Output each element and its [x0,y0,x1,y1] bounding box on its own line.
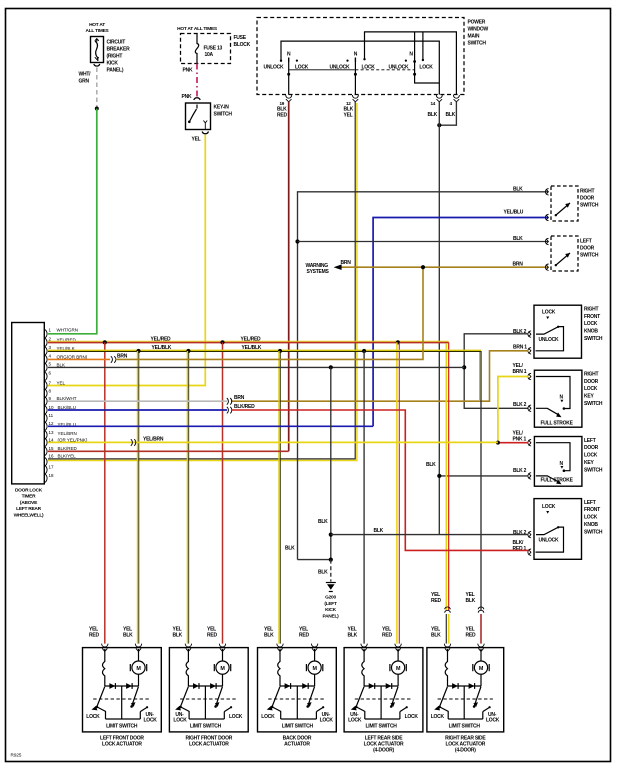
svg-text:WHT/GRN: WHT/GRN [57,327,79,332]
svg-text:13: 13 [49,430,55,435]
right door switch arm [556,203,570,215]
svg-text:SWITCH: SWITCH [214,112,233,118]
wire BLK to right door switch [298,192,549,560]
svg-text:LIMIT SWITCH: LIMIT SWITCH [449,724,481,730]
key-in switch U1 box [186,103,211,130]
wire YEL/RED branch to actuator 2 [222,342,224,643]
wire YEL from key-in switch to timer pin 7 [48,135,205,386]
svg-text:DOOR: DOOR [580,245,595,251]
wire row 3 YEL/BLK (yellow + black pair) [48,349,481,351]
svg-text:FULL STROKE: FULL STROKE [541,477,574,483]
svg-text:YEL/BRN: YEL/BRN [143,436,164,442]
svg-text:LOCK: LOCK [584,453,598,459]
svg-text:DOOR: DOOR [580,195,595,201]
wire YEL/BRN key pin1 riser [498,377,529,443]
svg-text:RED: RED [89,633,99,639]
wire BRN warning systems / left door switch pin 2 [341,266,548,268]
svg-text:LOCK: LOCK [542,310,556,316]
svg-text:KNOB: KNOB [584,329,598,335]
svg-text:GRN: GRN [79,79,90,85]
splice row 10 [227,407,232,414]
svg-text:BLK: BLK [318,570,328,576]
wire PNK dash-dot [196,64,198,100]
svg-text:WHT/: WHT/ [79,72,92,78]
junction dot pin14 net [437,474,441,478]
pin 1 connector [528,348,531,354]
junction dot row3 act2 [186,349,190,353]
wire row 12 YEL/BLU [48,425,373,427]
splice color change act5 left [445,607,451,613]
svg-text:LEFT FRONT DOOR: LEFT FRONT DOOR [100,735,144,741]
svg-text:12: 12 [346,101,351,106]
svg-text:YEL/BRN: YEL/BRN [58,431,77,436]
right door switch dashed box [551,186,578,221]
svg-text:YEL: YEL [173,626,182,632]
right door switch connectors [545,189,548,195]
wire YEL/RED branch to actuator 1 [104,342,106,643]
svg-text:BLK: BLK [431,633,441,639]
svg-text:RED: RED [431,598,441,604]
wire row 14 YEL/BRN [48,441,498,443]
pin 2 connector [528,473,531,479]
svg-text:18: 18 [49,473,55,478]
pin 1 connector [528,440,531,446]
svg-text:FUSE: FUSE [234,35,247,41]
svg-text:BLK: BLK [285,546,295,552]
svg-text:BLK/RED: BLK/RED [234,404,255,410]
svg-text:LEFT REAR SIDE: LEFT REAR SIDE [365,735,404,741]
svg-text:RIGHT: RIGHT [584,306,599,312]
key switch internal wire pin1 to N contact [536,377,570,409]
splice row 9 [227,398,232,405]
svg-text:LEFT REAR: LEFT REAR [16,506,41,512]
svg-text:11: 11 [49,413,54,418]
svg-text:LIMIT SWITCH: LIMIT SWITCH [366,724,398,730]
junction dot row2 act4 [396,340,400,344]
arrow to warning systems [334,264,342,270]
svg-text:LEFT: LEFT [584,438,596,444]
svg-text:YEL: YEL [207,626,216,632]
svg-text:YEL: YEL [466,592,475,598]
wire YEL/RED branch to actuator 4 (yellow+red pair) [396,342,398,643]
svg-text:(RIGHT: (RIGHT [107,54,123,60]
svg-text:(4-DOOR): (4-DOOR) [455,748,476,754]
svg-text:KEY: KEY [584,460,594,466]
svg-text:SWITCH: SWITCH [584,401,603,407]
svg-text:CIRCUIT: CIRCUIT [107,40,126,46]
svg-text:LOCK: LOCK [584,386,598,392]
junction dot row2 act2 [220,340,224,344]
svg-text:PANEL): PANEL) [107,68,124,74]
svg-text:SYSTEMS: SYSTEMS [307,269,330,275]
svg-text:MAIN: MAIN [468,34,480,40]
svg-text:BLK: BLK [513,186,523,192]
svg-text:BRN 1: BRN 1 [513,345,527,351]
svg-text:17: 17 [49,465,55,470]
svg-text:FRONT: FRONT [584,507,600,513]
wire BLK from pin 4 joining pin 14 [439,102,456,125]
svg-text:KICK: KICK [325,607,337,613]
wire BLK to left door switch [298,241,549,243]
svg-text:LEFT: LEFT [580,238,592,244]
svg-text:LOCK: LOCK [431,714,445,720]
svg-text:BLK: BLK [348,633,358,639]
junction splice dot [95,107,99,111]
splice color change act5 right [478,607,484,613]
right front door lock actuator [169,644,248,748]
svg-text:LIMIT SWITCH: LIMIT SWITCH [282,724,314,730]
svg-text:KNOB: KNOB [584,522,598,528]
svg-text:LOCK: LOCK [584,321,598,327]
wire YEL/BLK corner down to actuator 5 [480,351,482,610]
right door lock key switch box [534,370,582,427]
power window main switch dashed box [257,18,464,95]
wire BLK G08 riser [330,367,332,559]
right rear side door lock actuator [427,644,504,754]
svg-text:BLK: BLK [374,528,384,534]
svg-text:BLK 2: BLK 2 [513,468,527,474]
svg-text:ALL TIMES: ALL TIMES [86,28,110,34]
svg-text:19: 19 [280,101,285,106]
junction dot left knob BLK branch [329,533,333,537]
mechanical link dashed S2-S3 [355,69,414,71]
svg-text:10A: 10A [205,52,214,58]
svg-text:LOCK: LOCK [348,718,362,724]
svg-text:UNLOCK: UNLOCK [539,337,560,343]
junction dot G08 [329,558,333,562]
svg-text:LOCK: LOCK [320,718,334,724]
junction dot row2 act1 [103,340,107,344]
svg-text:BREAKER: BREAKER [107,47,131,53]
svg-text:KEY-IN: KEY-IN [214,105,230,111]
wire BLK to left front knob pin 2 [331,534,529,536]
svg-text:BLK: BLK [123,633,133,639]
svg-text:BRN: BRN [513,262,524,268]
wire YEL/BLK branch to actuator 2 [186,351,188,644]
svg-text:BLOCK: BLOCK [234,42,251,48]
svg-text:LOCK: LOCK [261,714,275,720]
svg-text:LOCK ACTUATOR: LOCK ACTUATOR [102,742,142,748]
svg-text:LEFT: LEFT [584,500,596,506]
svg-text:SWITCH: SWITCH [584,467,603,473]
svg-text:FULL STROKE: FULL STROKE [541,420,574,426]
left door lock key switch box [534,437,582,487]
key switch arm [536,476,560,483]
wire YEL/BLK branch to actuator 3 [278,351,280,644]
svg-text:BLK: BLK [446,112,456,118]
svg-text:ORG(OR BRN): ORG(OR BRN) [57,354,88,359]
svg-text:POWER: POWER [468,20,486,26]
pin 4 connector [453,95,459,102]
splice row 14 [131,439,136,446]
knob switch arm [536,327,564,351]
svg-text:BLK: BLK [428,112,438,118]
pin 19 connector [286,95,292,102]
pin brackets 1-18 [45,330,47,483]
wire internal rail 2 [281,41,439,95]
junction dot pins 14/4 [437,123,441,127]
svg-text:BLK: BLK [264,633,274,639]
svg-text:BRN 1: BRN 1 [513,369,527,375]
svg-text:LOCK ACTUATOR: LOCK ACTUATOR [189,742,229,748]
svg-text:RIGHT: RIGHT [580,188,595,194]
wire row 10 BLK/BLU [48,409,227,411]
svg-text:UNLOCK: UNLOCK [389,65,410,71]
junction dot left door switch branch [295,239,299,243]
svg-text:M: M [396,666,401,672]
wire YEL/RED to actuator 5 (corner, yellow+red pair) [448,342,450,610]
svg-text:LIMIT SWITCH: LIMIT SWITCH [190,724,222,730]
svg-text:PNK: PNK [182,94,192,100]
wire row 9 BLK/WHT [48,400,227,402]
svg-text:ACTUATOR: ACTUATOR [284,742,310,748]
svg-text:LOCK: LOCK [173,718,187,724]
svg-text:LOCK: LOCK [229,714,243,720]
svg-text:M: M [312,666,317,672]
svg-text:BLK: BLK [57,362,66,367]
svg-text:R925: R925 [11,753,22,758]
key-in switch connector top [194,98,200,100]
wire internal rail 1 [365,32,457,95]
svg-text:HOT AT: HOT AT [89,22,105,28]
wire WHT/GRN unconnected (dashed gray) [96,68,98,109]
svg-text:YEL: YEL [264,626,273,632]
svg-text:LOCK ACTUATOR: LOCK ACTUATOR [445,742,485,748]
back door actuator [258,644,337,748]
key switch arm [536,408,560,415]
svg-text:BLK: BLK [426,462,436,468]
svg-text:RED: RED [207,633,217,639]
svg-text:RED: RED [299,633,309,639]
svg-text:LOCK: LOCK [584,515,598,521]
lock contact [546,317,549,320]
svg-text:(ABOVE: (ABOVE [20,500,38,506]
door lock timer box [12,323,45,484]
wire BRN knob pin1 to row9 splice net [231,351,529,401]
svg-text:UNLOCK: UNLOCK [330,65,351,71]
wire link S1-S2 [289,69,355,71]
wire YEL/RED below splice act5 right (dark red) [480,614,482,644]
svg-text:YEL/BLK: YEL/BLK [242,345,262,351]
left door switch arm [556,253,570,265]
pin 2 connector [528,331,531,337]
left door switch connectors [545,238,548,244]
svg-text:YEL: YEL [431,626,440,632]
svg-text:BRN: BRN [234,395,245,401]
left front lock knob switch box [534,499,582,560]
svg-text:BLK: BLK [513,236,523,242]
circuit breaker symbol [95,39,98,62]
svg-text:DOOR LOCK: DOOR LOCK [15,487,43,493]
svg-text:LOCK: LOCK [419,65,433,71]
svg-text:BLK/WHT: BLK/WHT [57,396,77,401]
svg-text:YEL: YEL [89,626,98,632]
svg-text:KICK: KICK [107,61,119,67]
svg-text:LIMIT SWITCH: LIMIT SWITCH [106,724,138,730]
wire BLK knob pin2 to row5 net [464,334,528,409]
svg-text:YEL: YEL [123,626,132,632]
svg-text:FUSE 13: FUSE 13 [204,46,223,52]
wire YEL/PNK red from dot to left key pin1 [498,442,529,444]
svg-text:YEL/RED: YEL/RED [241,337,262,343]
svg-text:RIGHT: RIGHT [584,371,599,377]
actuator wire labels [89,592,476,639]
svg-text:YEL: YEL [348,626,357,632]
right front lock knob switch box [534,305,582,358]
svg-text:YEL: YEL [192,137,201,143]
wire BLK/YEL from pin 12 to timer row 16 (black+yellow pair) [48,102,355,459]
svg-text:PNK: PNK [183,68,193,74]
svg-text:LOCK: LOCK [542,504,556,510]
svg-text:LOCK: LOCK [405,714,419,720]
wire row 4 ORG segment [48,358,110,360]
wire BLK/RED row10 to left knob pin1 [231,410,529,550]
svg-text:SWITCH: SWITCH [580,252,599,258]
connector below breaker [94,64,100,66]
svg-text:BACK DOOR: BACK DOOR [283,735,312,741]
wire BLK from pin 14 down to left door lock key switch row [438,102,440,535]
svg-text:SWITCH: SWITCH [468,41,487,47]
wire sw3 lock feed [422,32,424,60]
pin 14 connector [436,95,442,102]
fuse 13 symbol [195,34,198,64]
svg-text:PANEL): PANEL) [323,613,340,619]
fuse block dashed box [181,34,231,64]
junction dot row5 net [462,365,466,369]
svg-text:BLK/YEL: BLK/YEL [58,453,77,458]
svg-text:YEL: YEL [344,113,353,119]
svg-text:YEL: YEL [431,592,440,598]
svg-text:DOOR: DOOR [584,379,599,385]
left front door lock actuator [83,644,162,748]
svg-text:DOOR: DOOR [584,445,599,451]
knob switch arm [536,527,564,552]
wire BLK dashed to ground [330,560,332,582]
svg-text:UNLOCK: UNLOCK [539,538,560,544]
svg-text:(4-DOOR): (4-DOOR) [373,748,394,754]
svg-text:BLK: BLK [466,598,476,604]
pin 1 connector [528,549,531,555]
svg-text:TIMER: TIMER [22,494,36,500]
splice row 4 [111,356,116,363]
wire row 5 BLK [48,366,464,368]
wire row 15 BLK/RED [48,450,289,452]
wire BLK/RED from pin 19 to timer row 15 [288,102,290,452]
wire BRN row 4 to warning systems net [115,267,423,359]
svg-text:YEL: YEL [466,626,475,632]
svg-text:BRN: BRN [341,260,352,266]
svg-text:LOCK: LOCK [86,714,100,720]
svg-text:BLK: BLK [173,633,183,639]
svg-text:BRN: BRN [117,353,128,359]
svg-text:YEL: YEL [57,380,66,385]
svg-text:14: 14 [431,101,436,106]
svg-text:YEL: YEL [382,626,391,632]
svg-text:YEL/RED: YEL/RED [151,337,172,343]
wire BLK door switch net to G08 joint [298,559,331,561]
lock contact [546,511,549,514]
svg-text:LOCK ACTUATOR: LOCK ACTUATOR [364,742,404,748]
pin 1 connector [528,373,531,379]
svg-text:WINDOW: WINDOW [468,27,489,33]
junction dot row5 G08 branch [329,365,333,369]
key-in switch arm [190,105,198,122]
svg-text:HOT AT ALL TIMES: HOT AT ALL TIMES [177,26,218,32]
pin 2 connector [528,405,531,411]
wire BLK left key pin2 [439,475,528,477]
junction dot YEL/BRN net [496,441,500,445]
pin 12 connector [352,95,358,102]
wire WHT/GRN green vertical to timer pin 1 [48,109,97,334]
svg-text:RIGHT REAR SIDE: RIGHT REAR SIDE [445,735,486,741]
svg-text:RED: RED [277,113,287,119]
wire YEL/BLK branch to actuator 4 (black) [363,351,365,644]
svg-text:BLK 2: BLK 2 [513,402,527,408]
svg-text:WHEELWELL): WHEELWELL) [14,513,44,519]
svg-text:FRONT: FRONT [584,314,600,320]
svg-text:PNK 1: PNK 1 [513,437,527,443]
left door switch dashed box [551,236,578,271]
wire YEL/BLK branch to actuator 1 [137,351,139,644]
svg-text:SWITCH: SWITCH [580,202,599,208]
contact dots at switch feeds [280,60,282,62]
svg-text:YEL/BLU: YEL/BLU [504,209,524,215]
circuit breaker CB box [91,37,104,63]
svg-text:16: 16 [49,453,55,458]
ground G08 symbol [326,582,336,584]
svg-text:G200: G200 [325,595,336,601]
wire YEL/BLK below splice act5 left [445,614,447,644]
svg-text:(LEFT: (LEFT [324,601,337,607]
svg-text:YEL/BLK: YEL/BLK [152,345,172,351]
wire row 2 YEL/RED (yellow fringe + red) [48,340,449,342]
svg-text:LOCK: LOCK [144,718,158,724]
svg-text:RIGHT FRONT DOOR: RIGHT FRONT DOOR [186,735,233,741]
key-in switch connector bottom [202,132,208,134]
pin 2 connector [528,531,531,537]
key switch internal wire pin1 to N contact [536,443,570,471]
svg-text:YEL: YEL [299,626,308,632]
wire YEL/BLU right door switch pin 2 [373,218,548,427]
svg-text:UNLOCK: UNLOCK [264,65,285,71]
junction dot BRN warning [421,265,425,269]
svg-text:15: 15 [49,446,55,451]
svg-text:RED: RED [382,633,392,639]
pin numbers and wire name labels [49,327,88,478]
junction dot row3 act3 [278,349,282,353]
svg-text:SWITCH: SWITCH [584,336,603,342]
svg-text:RED: RED [466,633,476,639]
svg-text:SWITCH: SWITCH [584,529,603,535]
svg-text:KEY: KEY [584,394,594,400]
svg-text:BLK: BLK [318,519,328,525]
junction dot row3 act4 [362,349,366,353]
left rear side door lock actuator [344,644,423,754]
svg-text:BLK/RED: BLK/RED [58,446,78,451]
junction dot row3 act1 [136,349,140,353]
svg-text:LOCK: LOCK [486,718,500,724]
svg-text:BLK 2: BLK 2 [513,530,527,536]
